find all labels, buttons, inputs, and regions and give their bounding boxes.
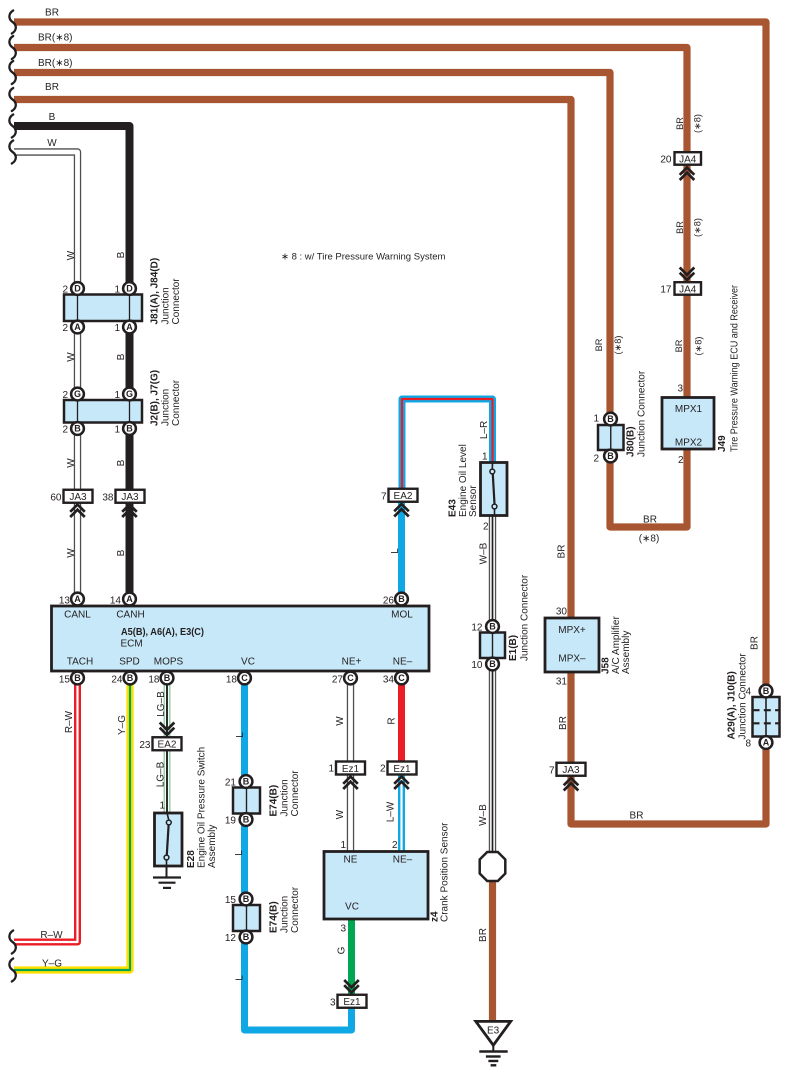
svg-text:L: L <box>390 548 401 554</box>
svg-text:27: 27 <box>332 675 344 686</box>
svg-text:B: B <box>398 594 405 604</box>
svg-text:MPX2: MPX2 <box>675 438 703 449</box>
svg-text:BR: BR <box>675 221 685 234</box>
wire BR(*8) net: top row 2 / JA4 column down to J49 MPX1 <box>14 48 687 401</box>
connector 23 EA2 <box>139 737 181 751</box>
pin 2(A) of J81 <box>62 321 83 334</box>
connector 17 JA4 <box>660 282 701 295</box>
svg-text:Junction Connector: Junction Connector <box>738 653 749 740</box>
label J81(A), J84(D) Junction Connector <box>150 258 183 325</box>
svg-text:J49: J49 <box>717 435 728 452</box>
svg-text:VC: VC <box>345 902 359 913</box>
svg-text:2: 2 <box>678 455 684 466</box>
svg-text:3: 3 <box>677 384 683 395</box>
svg-text:2: 2 <box>62 285 68 296</box>
svg-text:15: 15 <box>225 895 237 906</box>
svg-text:15: 15 <box>59 675 71 686</box>
wire R: ECM NE- pin 34 to Ez1 pin 2 <box>398 680 405 762</box>
svg-text:W: W <box>66 548 77 558</box>
svg-text:Junction: Junction <box>161 389 172 426</box>
wire B: CAN high from left edge through J81/J2/JA3 to ECM pin 14 <box>14 126 130 596</box>
svg-text:Crank Position Sensor: Crank Position Sensor <box>440 822 451 922</box>
svg-text:BR: BR <box>675 117 685 130</box>
svg-text:BR: BR <box>674 339 684 352</box>
junction connector J80(B) body <box>598 425 624 450</box>
svg-text:1: 1 <box>340 840 346 851</box>
svg-text:B: B <box>126 424 133 434</box>
svg-text:(∗8): (∗8) <box>639 534 660 545</box>
svg-text:A: A <box>126 594 133 604</box>
svg-text:BR: BR <box>630 811 644 822</box>
connector 20 JA4 <box>660 152 701 165</box>
wire R-W: ECM TACH pin 15 to left edge <box>14 680 78 942</box>
svg-text:CANH: CANH <box>116 610 144 621</box>
svg-text:B: B <box>763 686 770 696</box>
wire W: CAN low from left edge through J81/J2/JA3 to ECM pin 13 <box>14 152 78 596</box>
junction connector E1(B) body <box>480 633 505 659</box>
svg-text:E43: E43 <box>448 499 459 517</box>
pin 8(A) of A29 <box>745 736 772 749</box>
wire-continues break mark, Y-G wire <box>9 959 15 982</box>
svg-text:30: 30 <box>556 607 568 618</box>
svg-text:NE: NE <box>344 855 358 866</box>
pin 15(B) of E74 lower <box>225 893 253 906</box>
svg-text:Engine Oil Pressure Switch: Engine Oil Pressure Switch <box>197 747 208 868</box>
svg-text:L: L <box>235 732 246 738</box>
svg-text:1: 1 <box>328 764 334 775</box>
pin 21(B) of E74 upper <box>225 775 253 788</box>
svg-text:Junction Connector: Junction Connector <box>520 574 531 661</box>
svg-text:1: 1 <box>114 285 120 296</box>
svg-text:3: 3 <box>340 924 346 935</box>
svg-text:G: G <box>337 946 348 954</box>
wire-continues break mark, R-W wire <box>9 931 15 954</box>
connector 7 EA2 <box>381 489 418 503</box>
svg-text:E3: E3 <box>487 1026 500 1037</box>
svg-text:2: 2 <box>62 323 68 334</box>
chevron into 23 EA2 <box>160 723 175 736</box>
svg-text:D: D <box>126 284 133 294</box>
svg-text:Ez1: Ez1 <box>343 997 361 1008</box>
wire BR net: top row 1 / right edge / bottom horizontal to J58 pin31 <box>14 22 766 824</box>
svg-text:NE+: NE+ <box>342 657 362 668</box>
svg-text:B: B <box>74 424 81 434</box>
ECM pin 27(C) NE+ <box>332 672 357 686</box>
ECM A5(B), A6(A), E3(C) body <box>52 606 430 671</box>
svg-text:Assembly: Assembly <box>207 825 218 868</box>
svg-text:B: B <box>74 673 81 683</box>
label E28 Engine Oil Pressure Switch Assembly <box>186 747 218 868</box>
svg-text:W: W <box>66 458 77 468</box>
pin 2(G) of J2 <box>62 388 83 401</box>
svg-text:1: 1 <box>593 414 599 425</box>
chevron into 60 JA3 <box>70 505 85 518</box>
svg-text:L: L <box>235 975 246 981</box>
svg-text:B: B <box>164 673 171 683</box>
pin 10(B) of E1 <box>471 658 499 671</box>
connector 38 JA3 <box>102 490 144 504</box>
svg-text:A: A <box>74 322 81 332</box>
svg-text:G: G <box>126 389 133 399</box>
svg-text:CANL: CANL <box>64 610 91 621</box>
pin 12(B) of E74 lower <box>225 931 253 944</box>
svg-text:1: 1 <box>114 390 120 401</box>
connector 7 JA3 <box>549 763 586 777</box>
chevron into 7 EA2 <box>394 504 409 517</box>
svg-text:B: B <box>607 414 614 424</box>
svg-text:J58: J58 <box>601 657 612 674</box>
label E43 Engine Oil Level Sensor <box>448 444 480 517</box>
svg-text:JA4: JA4 <box>679 284 697 295</box>
svg-text:E1(B): E1(B) <box>508 635 519 661</box>
chevron into 17 JA4 <box>680 268 695 281</box>
J49 Tire Pressure Warning ECU and Receiver body <box>662 398 714 450</box>
E28 Engine Oil Pressure Switch Assembly body <box>155 813 183 866</box>
svg-text:BR: BR <box>557 545 568 559</box>
label J49 Tire Pressure Warning ECU and Receiver <box>717 284 741 452</box>
svg-text:BR: BR <box>643 515 657 526</box>
svg-text:BR: BR <box>45 82 59 93</box>
connector 2 Ez1 <box>380 762 417 775</box>
svg-text:VC: VC <box>241 657 255 668</box>
svg-text:Connector: Connector <box>171 278 182 325</box>
svg-text:B: B <box>116 549 127 556</box>
wire W: Ez1 pin 1 to crank sensor pin 1 NE <box>347 775 354 854</box>
svg-text:∗ 8 : w/ Tire Pressure Warning: ∗ 8 : w/ Tire Pressure Warning System <box>281 252 445 263</box>
ECM pin 14(A) CANH <box>110 593 136 607</box>
svg-text:R: R <box>387 717 398 724</box>
svg-text:Ez1: Ez1 <box>342 764 360 775</box>
pin 19(B) of E74 upper <box>225 813 253 826</box>
wire BR: splice to ground point E3 <box>489 879 496 1021</box>
wire W: ECM NE+ pin 27 to Ez1 pin 1 <box>347 680 354 762</box>
svg-text:BR(∗8): BR(∗8) <box>38 58 73 69</box>
J58 A/C Amplifier Assembly body <box>545 618 599 672</box>
svg-text:J81(A), J84(D): J81(A), J84(D) <box>150 258 161 325</box>
svg-text:E74(B): E74(B) <box>269 901 280 933</box>
svg-text:Connector: Connector <box>290 770 301 817</box>
svg-text:A: A <box>763 738 770 748</box>
wire G: crank sensor VC pin 3 to Ez1 pin 3 <box>348 919 355 998</box>
svg-text:(∗8): (∗8) <box>693 218 703 237</box>
wire-continues break mark, BR row 2 <box>9 36 15 59</box>
pin 1(A) of J81 <box>114 321 135 334</box>
svg-text:2: 2 <box>392 840 398 851</box>
wire BR net: top row 4 down to J58 MPX+ pin 30 <box>14 100 571 623</box>
label E1(B) Junction Connector <box>508 574 531 661</box>
svg-text:Y–G: Y–G <box>42 959 62 970</box>
svg-text:MPX1: MPX1 <box>675 404 703 415</box>
label E74(B) Junction Connector lower <box>269 886 302 933</box>
wire-continues break mark, W wire <box>9 141 15 164</box>
label J58 A/C Amplifier Assembly <box>601 616 633 674</box>
wire L-R: EA2 pin 7 up and over to E43 oil level sensor pin 1 <box>402 399 493 490</box>
svg-text:Sensor: Sensor <box>468 485 479 517</box>
ECM pin 15(B) TACH <box>59 672 84 686</box>
ECM pin 18(B) MOPS <box>148 672 173 686</box>
svg-text:W: W <box>47 138 57 149</box>
svg-text:L–W: L–W <box>386 801 397 822</box>
svg-text:23: 23 <box>139 740 151 751</box>
svg-text:7: 7 <box>381 492 387 503</box>
label J2(B), J7(G) Junction Connector <box>150 370 183 426</box>
pin 1(D) of J81 <box>114 282 135 295</box>
svg-text:A: A <box>74 594 81 604</box>
svg-text:Y–G: Y–G <box>117 715 128 735</box>
ECM pin 18(C) VC <box>226 672 251 686</box>
svg-text:1: 1 <box>114 425 120 436</box>
svg-text:2: 2 <box>62 425 68 436</box>
svg-text:17: 17 <box>660 285 672 296</box>
wire BR(*8) net: top row 3 down to J80(B) pin 1(B) <box>14 73 610 416</box>
chevron into 1 Ez1 <box>343 777 358 790</box>
svg-text:24: 24 <box>111 675 123 686</box>
svg-text:18: 18 <box>226 675 238 686</box>
svg-text:B: B <box>243 777 250 787</box>
svg-text:Connector: Connector <box>290 886 301 933</box>
junction connector A29(A), J10(B) body <box>753 697 780 737</box>
pin 2(D) of J81 <box>62 282 83 295</box>
z4 Crank Position Sensor body <box>324 852 428 920</box>
svg-text:D: D <box>74 284 81 294</box>
svg-text:(∗8): (∗8) <box>693 114 703 133</box>
svg-text:1: 1 <box>159 801 165 812</box>
svg-text:NE–: NE– <box>393 657 413 668</box>
svg-text:J2(B), J7(G): J2(B), J7(G) <box>150 370 161 426</box>
svg-text:R–W: R–W <box>40 930 63 941</box>
svg-text:31: 31 <box>556 677 568 688</box>
svg-text:(∗8): (∗8) <box>613 336 623 355</box>
svg-text:MPX+: MPX+ <box>558 625 586 636</box>
svg-text:A: A <box>126 322 133 332</box>
svg-text:Junction: Junction <box>280 896 291 933</box>
svg-text:34: 34 <box>383 675 395 686</box>
junction connector J2(B), J7(G) body <box>64 400 142 423</box>
svg-text:W: W <box>335 716 346 726</box>
svg-text:TACH: TACH <box>67 657 93 668</box>
junction connector E74(B) lower body <box>233 905 260 931</box>
svg-text:2: 2 <box>593 454 599 465</box>
wire-continues break mark, BR row 1 <box>9 11 15 34</box>
svg-text:W–B: W–B <box>479 542 490 564</box>
svg-text:B: B <box>116 353 127 360</box>
svg-text:Assembly: Assembly <box>621 631 632 674</box>
svg-text:14: 14 <box>110 596 122 607</box>
pin 2(B) of J2 <box>62 422 83 435</box>
svg-text:BR(∗8): BR(∗8) <box>38 33 73 44</box>
svg-text:NE–: NE– <box>393 855 413 866</box>
svg-text:ECM: ECM <box>121 639 143 650</box>
svg-text:B: B <box>243 932 250 942</box>
svg-text:E74(B): E74(B) <box>269 785 280 817</box>
chevron into 7 JA3 <box>564 778 579 791</box>
svg-text:B: B <box>243 815 250 825</box>
svg-text:EA2: EA2 <box>158 740 177 751</box>
svg-text:BR: BR <box>594 338 604 351</box>
svg-text:Junction: Junction <box>161 287 172 324</box>
connector 1 Ez1 <box>328 762 365 775</box>
svg-text:MPX–: MPX– <box>558 654 586 665</box>
svg-text:(∗8): (∗8) <box>694 337 704 356</box>
svg-text:3: 3 <box>330 998 336 1009</box>
svg-text:JA3: JA3 <box>562 765 580 776</box>
svg-text:BR: BR <box>558 716 569 730</box>
svg-text:MOL: MOL <box>391 610 413 621</box>
svg-text:MOPS: MOPS <box>154 657 184 668</box>
pin 2(B) of J80 <box>593 450 616 465</box>
svg-text:SPD: SPD <box>119 657 140 668</box>
chevron into 20 JA4 <box>680 168 695 181</box>
svg-text:Connector: Connector <box>171 379 182 426</box>
pin 1(B) of J80 <box>593 413 616 426</box>
E43 Engine Oil Level Sensor body <box>481 463 508 516</box>
svg-text:Tire Pressure Warning ECU and: Tire Pressure Warning ECU and Receiver <box>730 284 741 452</box>
svg-text:Junction: Junction <box>280 779 291 816</box>
ground point E3 <box>476 1021 511 1065</box>
svg-text:E28: E28 <box>186 850 197 868</box>
junction connector J81(A), J84(D) body <box>64 295 142 322</box>
svg-text:JA3: JA3 <box>69 492 87 503</box>
wire-continues break mark, BR row 3 <box>9 61 15 84</box>
svg-text:LG–B: LG–B <box>156 691 167 717</box>
svg-text:B: B <box>489 622 496 632</box>
svg-text:B: B <box>49 112 56 123</box>
label z4 Crank Position Sensor <box>430 822 451 922</box>
svg-text:60: 60 <box>50 493 62 504</box>
svg-text:W: W <box>66 250 77 260</box>
svg-text:L: L <box>234 850 245 856</box>
wire-continues break mark, BR row 4 <box>9 88 15 111</box>
svg-text:B: B <box>116 459 127 466</box>
svg-text:A29(A), J10(B): A29(A), J10(B) <box>727 671 738 739</box>
svg-text:1: 1 <box>482 452 488 463</box>
chevron into 38 JA3 <box>122 505 137 518</box>
svg-text:W: W <box>335 809 346 819</box>
svg-text:12: 12 <box>225 933 237 944</box>
splice point octagon on W-B/BR wire <box>480 852 506 881</box>
wire LG-B: ECM MOPS pin 18 to EA2 and E28 oil pressure switch <box>164 680 171 813</box>
svg-text:18: 18 <box>148 675 160 686</box>
svg-text:R–W: R–W <box>64 710 75 733</box>
svg-text:10: 10 <box>471 660 483 671</box>
pin 12(B) of E1 <box>471 620 499 633</box>
connector 3 Ez1 <box>330 995 367 1009</box>
svg-text:B: B <box>116 251 127 258</box>
svg-text:26: 26 <box>383 596 395 607</box>
svg-text:W–B: W–B <box>478 804 489 826</box>
wire L: ECM VC pin 18 through E74(B) connectors to Ez1 pin 3 <box>245 680 352 1030</box>
svg-text:G: G <box>74 389 81 399</box>
svg-text:B: B <box>243 894 250 904</box>
connector 60 JA3 <box>50 490 92 504</box>
svg-text:A5(B), A6(A), E3(C): A5(B), A6(A), E3(C) <box>121 627 204 638</box>
label A29(A), J10(B) Junction Connector <box>727 653 749 740</box>
svg-text:BR: BR <box>750 636 761 650</box>
svg-text:2: 2 <box>380 764 386 775</box>
ECM pin 13(A) CANL <box>59 593 84 607</box>
junction connector E74(B) upper body <box>233 788 260 814</box>
svg-text:Junction Connector: Junction Connector <box>637 370 648 457</box>
svg-text:12: 12 <box>471 623 483 634</box>
svg-text:C: C <box>347 673 354 683</box>
wire BR(*8): J49 MPX2 pin2 U-turn to J80(B) pin 2(B) <box>610 430 687 527</box>
svg-text:C: C <box>398 673 405 683</box>
wire L: ECM MOL pin 26 up to EA2 pin 7 <box>398 501 405 596</box>
svg-text:1: 1 <box>114 323 120 334</box>
wire-continues break mark, B wire <box>9 115 15 138</box>
svg-text:W: W <box>66 352 77 362</box>
svg-text:C: C <box>241 673 248 683</box>
svg-text:J80(B): J80(B) <box>626 426 637 457</box>
svg-text:2: 2 <box>483 522 489 533</box>
label E74(B) Junction Connector upper <box>269 770 302 817</box>
svg-text:JA4: JA4 <box>679 154 697 165</box>
ECM pin 26(B) MOL <box>383 593 408 607</box>
svg-text:38: 38 <box>102 493 114 504</box>
chevron into 3 Ez1 <box>344 980 359 993</box>
pin 1(G) of J2 <box>114 388 135 401</box>
wire L-W: Ez1 pin 2 to crank sensor pin 2 NE- <box>398 775 405 854</box>
svg-text:B: B <box>489 659 496 669</box>
svg-text:20: 20 <box>660 155 672 166</box>
svg-text:2: 2 <box>62 390 68 401</box>
svg-text:BR: BR <box>478 928 489 942</box>
ECM pin 24(B) SPD <box>111 672 136 686</box>
svg-text:BR: BR <box>45 8 59 19</box>
ECM pin 34(C) NE- <box>383 672 408 686</box>
svg-text:EA2: EA2 <box>394 491 413 502</box>
svg-text:LG–B: LG–B <box>156 761 167 787</box>
pin 4(B) of A29 <box>745 685 772 698</box>
pin 1(B) of J2 <box>114 422 135 435</box>
svg-text:Ez1: Ez1 <box>393 764 411 775</box>
wire Y-G: ECM SPD pin 24 to left edge <box>14 680 130 970</box>
svg-text:13: 13 <box>59 596 71 607</box>
wire W-B: E43 pin 2 down through E1(B) junction to splice <box>489 514 496 854</box>
svg-text:L–R: L–R <box>479 421 490 439</box>
label J80(B) Junction Connector <box>626 370 648 457</box>
svg-text:B: B <box>127 673 134 683</box>
ground below E28 <box>153 866 181 888</box>
svg-text:B: B <box>607 451 614 461</box>
chevron into 2 Ez1 <box>394 777 409 790</box>
svg-text:7: 7 <box>549 766 555 777</box>
svg-text:JA3: JA3 <box>121 492 139 503</box>
svg-text:21: 21 <box>225 778 237 789</box>
svg-text:19: 19 <box>225 816 237 827</box>
